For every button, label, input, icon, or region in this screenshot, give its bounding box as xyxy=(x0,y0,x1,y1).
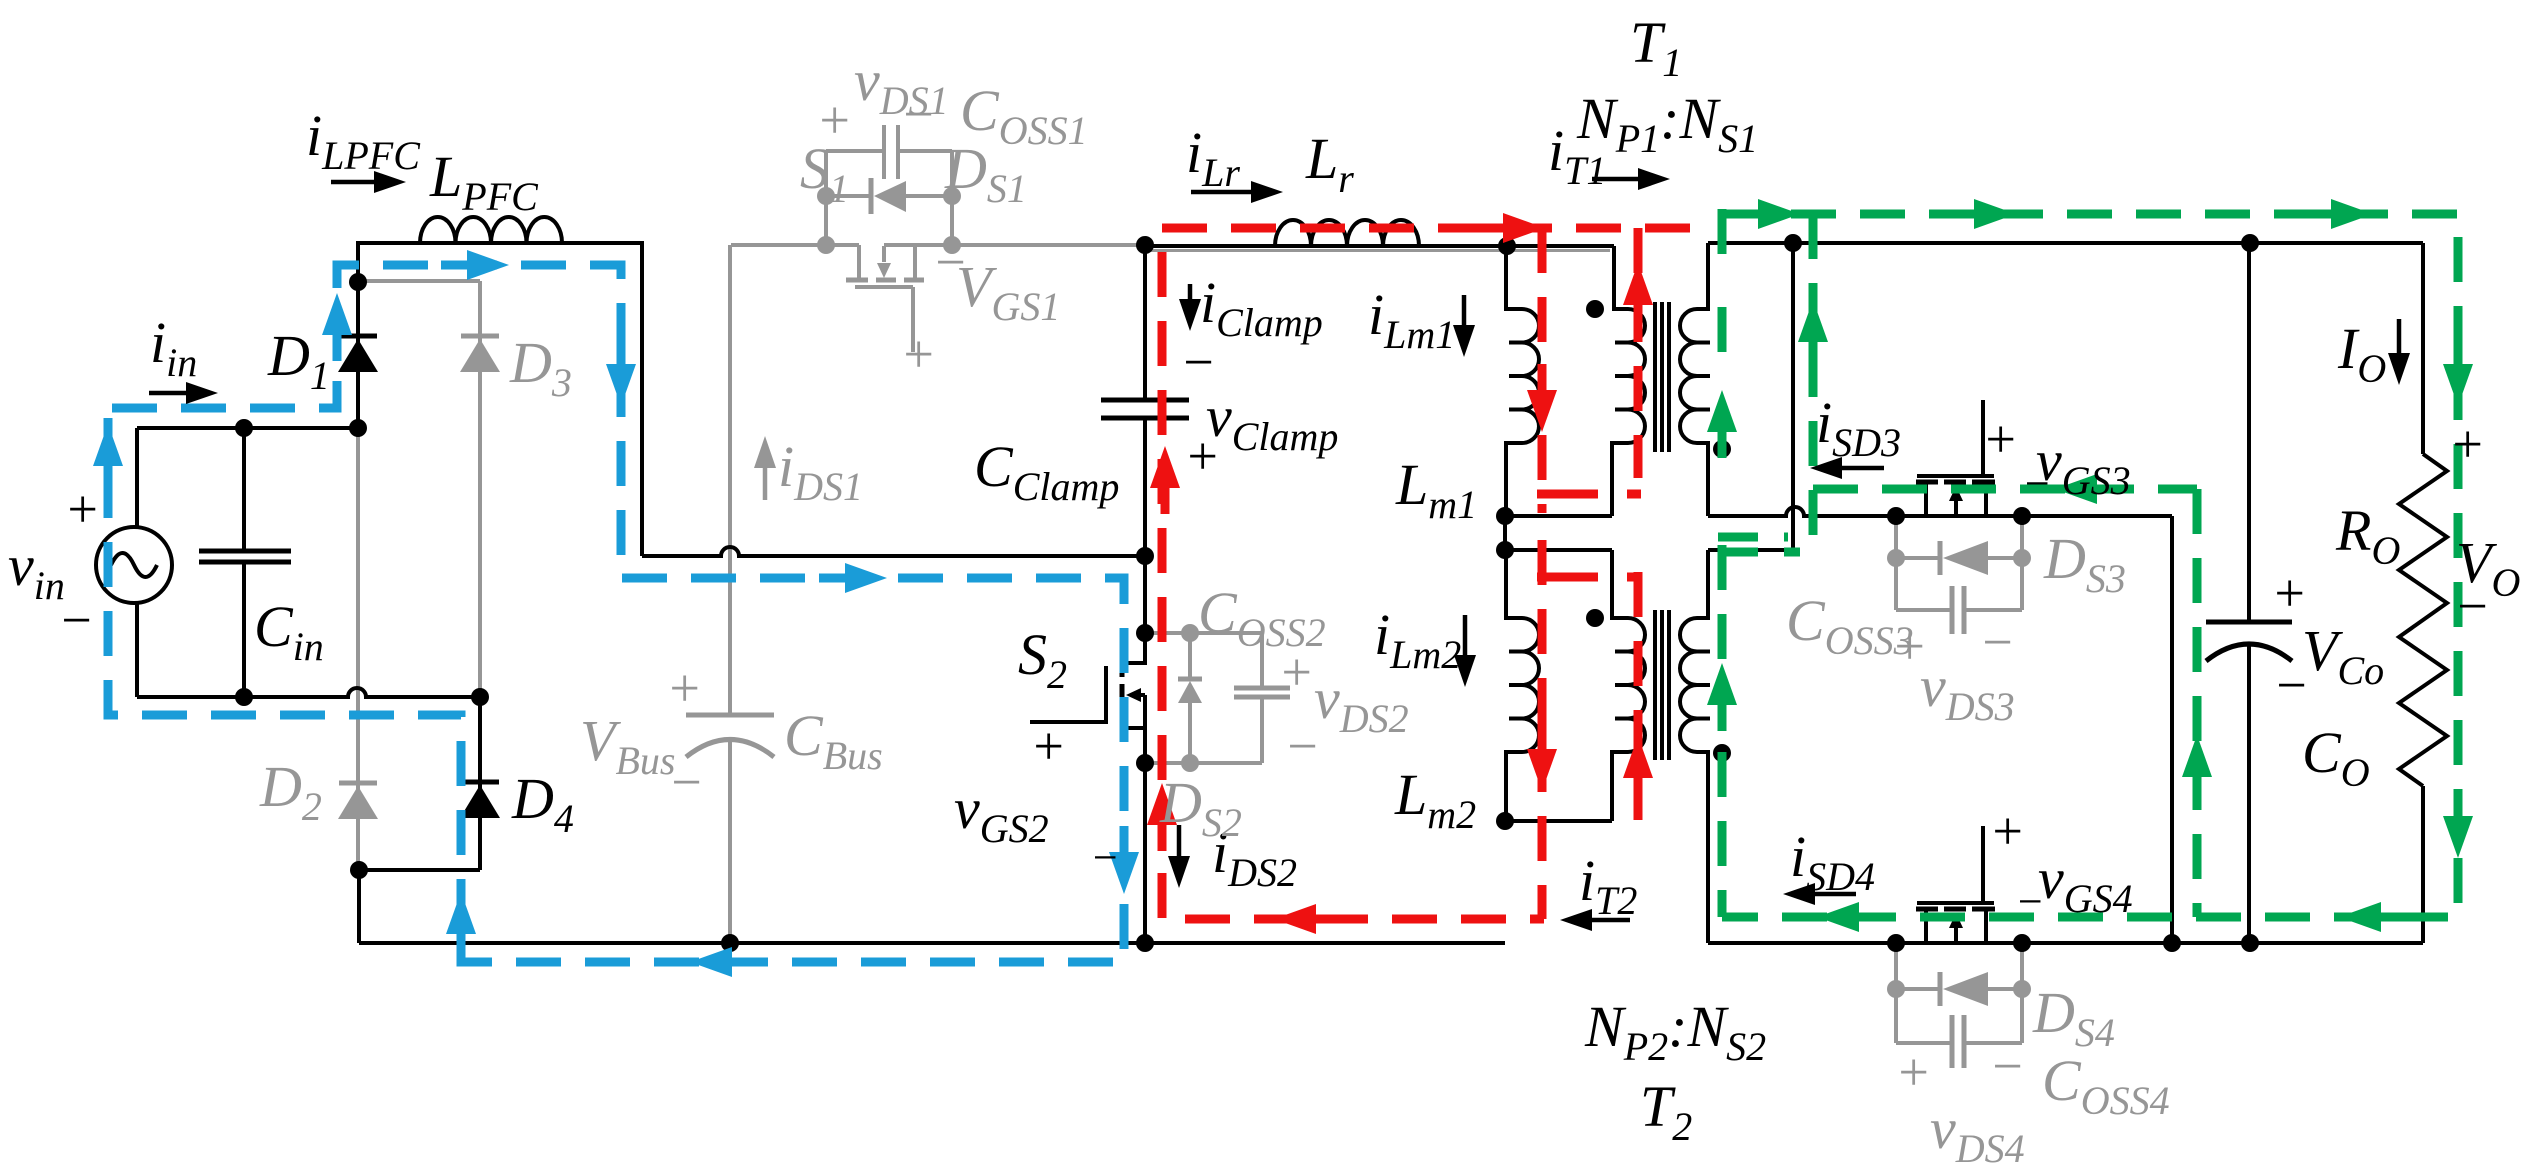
wire red branch Lm2 down xyxy=(1538,540,1547,919)
node node bottom rail / CO bottom xyxy=(2241,934,2259,952)
transformer T2 primary winding NP2 xyxy=(1612,550,1645,821)
capacitor CClamp xyxy=(1101,246,1189,556)
node node CClamp / S2 drain branch xyxy=(1136,547,1154,565)
svg-text:+: + xyxy=(2449,414,2485,474)
wire to bottom rail xyxy=(357,870,361,943)
wire main run y246 to transformers xyxy=(1145,244,1275,248)
current label iDS2 arrow xyxy=(1177,825,1182,856)
transformer polarity dots xyxy=(1586,300,1731,762)
node node S2 source xyxy=(1136,754,1154,772)
svg-text:+: + xyxy=(1989,801,2025,861)
wire Lm2/T2 top link xyxy=(1505,548,1612,552)
node node SD3 left xyxy=(1887,507,1905,525)
node node Lr / Lm1 / T1 primary xyxy=(1498,237,1516,255)
body diode DS3 and capacitor COSS3 (gray) xyxy=(1887,516,2031,634)
inductor LPFC xyxy=(420,217,562,243)
svg-text:+: + xyxy=(816,90,852,150)
current label iLr arrow xyxy=(1191,190,1251,195)
wire T2 primary bottom link xyxy=(1505,819,1612,823)
wire red branch Lm1 xyxy=(1538,228,1547,513)
wire green right mid vertical xyxy=(2193,489,2202,917)
transformer T2 core xyxy=(1655,610,1669,760)
node node Lm1 bottom xyxy=(1496,507,1514,525)
wire LPFC to clamp node with hop over CBus xyxy=(562,243,642,556)
switch S1 (gray) with body diode DS1 and capacitor COSS1 xyxy=(731,125,1145,352)
current label iClamp arrow xyxy=(1188,284,1193,299)
current label iLPFC arrow xyxy=(331,180,374,185)
AC source vin xyxy=(96,428,172,697)
wire bottom rail left xyxy=(359,941,1505,945)
svg-text:−: − xyxy=(1090,833,1120,882)
current label iDS1 (gray arrow) xyxy=(763,468,768,500)
node node vin- / Cin bottom xyxy=(235,688,253,706)
wire T2 secondary top xyxy=(1708,548,1793,552)
T2 primary polarity dot xyxy=(1586,609,1604,627)
transformer T1 core xyxy=(1655,302,1669,452)
svg-text:−: − xyxy=(1979,612,2015,672)
node node top rail / CO top xyxy=(2241,234,2259,252)
transistor SD3 xyxy=(1916,400,1995,516)
svg-text:−: − xyxy=(2015,877,2045,926)
inductor Lm1 winding xyxy=(1506,246,1539,516)
node node Lm2 bottom / T2 primary xyxy=(1496,812,1514,830)
svg-text:+: + xyxy=(2271,563,2307,623)
diode D1 xyxy=(338,282,378,430)
resistor RO zigzag xyxy=(2399,243,2447,943)
wire green T2 secondary vertical xyxy=(1718,545,1727,917)
svg-text:−: − xyxy=(2454,576,2490,636)
current label iSD4 arrow xyxy=(1815,892,1856,897)
wire red dashed current path loop xyxy=(1147,213,1690,934)
T1 primary polarity dot xyxy=(1586,300,1604,318)
svg-text:−: − xyxy=(1989,1036,2025,1096)
wire green SD3 row xyxy=(1813,485,2197,494)
svg-text:+: + xyxy=(1278,642,1314,702)
svg-text:+: + xyxy=(900,324,936,384)
svg-text:−: − xyxy=(1284,716,1320,776)
wire vertical to top rail xyxy=(1791,243,1795,550)
svg-text:−: − xyxy=(2273,655,2309,715)
node node Lm2 top xyxy=(1496,541,1514,559)
svg-text:−: − xyxy=(668,752,704,812)
node node D1 cathode / PFC top xyxy=(349,273,367,291)
wire red branch T1 primary xyxy=(1634,228,1643,478)
wire clamp node to S2 xyxy=(1143,556,1147,633)
inductor Lm2 winding xyxy=(1506,550,1539,821)
wire green T1 secondary vertical xyxy=(1718,209,1727,276)
wire red branch T2 primary xyxy=(1634,572,1643,820)
node node SD3 right xyxy=(2013,507,2031,525)
wire green short links near T2 xyxy=(1718,533,1788,542)
node node bottom rail / SD3 branch xyxy=(2163,934,2181,952)
node node vin+ / Cin top xyxy=(235,419,253,437)
wire red link y577 xyxy=(1537,573,1598,582)
diode D4 xyxy=(460,697,500,870)
wire bottom rail right xyxy=(1708,941,2423,945)
wire center node link xyxy=(1503,516,1507,550)
diode D3 (gray) xyxy=(358,281,500,697)
transistor SD4 xyxy=(1916,826,1995,943)
current label iLm1 arrow xyxy=(1462,295,1467,325)
capacitor COSS2 and body diode DS2 of S2 (gray) xyxy=(1145,624,1290,772)
node node S2 drain xyxy=(1136,624,1154,642)
capacitor Cin xyxy=(199,428,291,697)
node junction dots xyxy=(235,234,2259,952)
node node D2-D4 anodes xyxy=(350,861,368,879)
wire SD3 row down to bottom rail xyxy=(2170,516,2174,943)
wire vin+ top xyxy=(137,426,358,430)
node node S2 source rail xyxy=(1136,934,1154,952)
node node SD4 left xyxy=(1887,934,1905,952)
inductor Lr xyxy=(1275,220,1419,246)
T2 secondary polarity dot xyxy=(1713,744,1731,762)
wire Lm1/T1 bottom link xyxy=(1505,514,1612,518)
svg-text:−: − xyxy=(932,232,968,292)
capacitor CO output xyxy=(2206,243,2292,943)
node node vin- / D3-D4 xyxy=(471,688,489,706)
current label iT2 arrow xyxy=(1592,918,1630,923)
current label iSD3 arrow xyxy=(1842,466,1884,471)
svg-text:−: − xyxy=(900,84,936,144)
wire red link y494 xyxy=(1537,490,1598,499)
svg-text:+: + xyxy=(1030,716,1066,776)
wire vin- bottom with hop xyxy=(137,688,480,697)
svg-text:−: − xyxy=(2022,459,2052,508)
current label iLm2 arrow xyxy=(1463,615,1468,655)
wire blue dashed current path loop xyxy=(93,250,1139,977)
wire green T2 route vertical xyxy=(1809,214,1818,548)
node node SD4 right xyxy=(2013,934,2031,952)
current label iin arrow xyxy=(149,391,186,396)
wire bridge bottom xyxy=(359,868,480,872)
node node CBus bottom rail xyxy=(721,934,739,952)
diode D2 (gray) xyxy=(338,430,378,870)
wire gray rail extension under main run xyxy=(1145,249,1610,252)
capacitor CBus (gray) with VBus labels xyxy=(686,245,774,943)
wire top rail secondary side xyxy=(1708,241,2423,245)
node node vin+ / D1 anode xyxy=(349,419,367,437)
node node top rail / T2 secondary link xyxy=(1784,234,1802,252)
svg-text:+: + xyxy=(64,479,100,539)
svg-text:+: + xyxy=(1895,1042,1931,1102)
node node clamp top xyxy=(1136,236,1154,254)
transistor S2 xyxy=(1030,633,1145,943)
svg-text:+: + xyxy=(1982,409,2018,469)
body diode DS4 and capacitor COSS4 (gray) xyxy=(1887,943,2031,1068)
T1 secondary polarity dot xyxy=(1713,440,1731,458)
wire top left to LPFC xyxy=(358,243,420,282)
transformer T1 secondary winding NS1 xyxy=(1680,243,1710,516)
current label IO arrow xyxy=(2397,319,2402,353)
wire Lr to T1 xyxy=(1419,244,1614,248)
svg-text:−: − xyxy=(1180,332,1216,392)
wire green dashed current path loop xyxy=(1707,199,2473,932)
wire SD3 row with hop xyxy=(1708,507,2172,516)
transformer T1 primary winding NP1 xyxy=(1612,246,1645,516)
current label iT1 arrow xyxy=(1592,177,1638,182)
transformer T2 secondary winding NS2 xyxy=(1680,550,1710,943)
svg-text:−: − xyxy=(58,590,94,650)
svg-text:+: + xyxy=(1184,426,1220,486)
svg-text:+: + xyxy=(666,658,702,718)
